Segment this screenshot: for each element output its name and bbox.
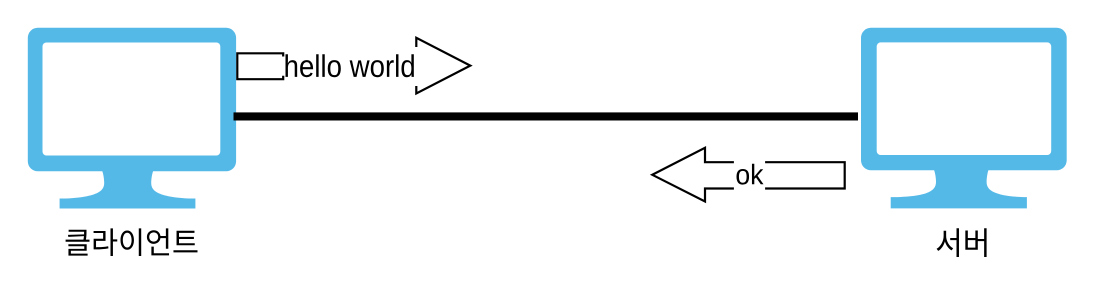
ok arrow right tail rectangle segment [765,162,845,188]
label: 서버 (server) [937,228,987,257]
hello world arrow tail rectangle (right edge gapped) [237,53,283,79]
wire: thick link line between client and server [234,112,859,120]
server monitor display frame [861,28,1067,171]
label: ok [737,164,764,185]
server monitor stand [891,169,1027,209]
ok arrow head and left tail segments (gap for label) [652,148,734,202]
server monitor screen [877,42,1051,155]
hello world arrowhead (left edge gapped) [416,38,470,94]
label: 클라이언트 (client) [66,228,198,256]
client monitor stand [60,169,196,209]
client monitor screen [43,43,221,156]
label: hello world [286,54,414,77]
client monitor display frame [28,28,236,172]
